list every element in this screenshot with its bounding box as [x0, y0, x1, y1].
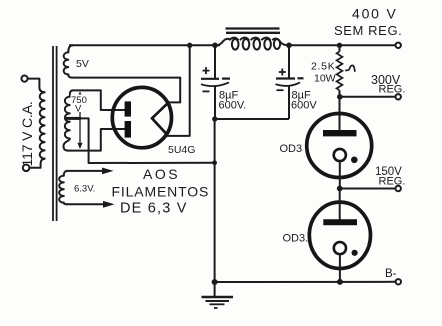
5U4G anode plate 1 [125, 101, 131, 116]
node 150V junction [337, 186, 343, 192]
V2 cathode circle [334, 149, 346, 161]
5U4G anode plate 2 [125, 121, 131, 138]
node filament/bus junction [187, 43, 192, 48]
transformer 5V winding [64, 45, 73, 77]
svg-text:400 V: 400 V [352, 6, 398, 22]
wire 150V line [340, 188, 396, 190]
transformer T1 primary winding 117V [28, 79, 45, 168]
terminal primary bottom [23, 165, 30, 172]
node cap1/bus junction [212, 43, 218, 49]
V3 cathode circle [334, 242, 346, 254]
filter choke L1 winding [215, 38, 289, 50]
dimension arrow 750V span [77, 91, 82, 149]
label R1 2.5K 10W [311, 61, 336, 85]
center tap of 750V winding [66, 117, 82, 120]
label C2 8uF 600V [291, 90, 317, 112]
top bus wire B+ [69, 44, 220, 46]
capacitor C1 8uF 600V [201, 45, 230, 119]
top bus wire to 400V [289, 44, 396, 46]
terminal 400V [396, 43, 401, 48]
label 150V REG. [375, 166, 405, 188]
terminal primary top [21, 76, 27, 82]
node ground junction [212, 279, 218, 285]
svg-text:V: V [75, 104, 82, 115]
node resistor top junction [337, 43, 342, 48]
wire V2 cathode down [339, 161, 341, 189]
svg-text:5U4G: 5U4G [168, 144, 195, 156]
V3 anode bar [323, 219, 357, 225]
wire center tap to down bus [80, 118, 89, 163]
cap bottom bus [215, 118, 289, 120]
terminal 300V [396, 94, 401, 99]
label 300V REG. [371, 73, 405, 96]
ground symbol [202, 282, 234, 308]
V2 anode bar [323, 130, 357, 136]
adjustable squiggle mark [345, 65, 355, 71]
svg-text:SEM REG.: SEM REG. [334, 23, 402, 38]
svg-text:600V: 600V [291, 100, 317, 112]
wire HV top end to upper plate [73, 90, 125, 110]
transformer T1 core [53, 46, 57, 221]
5U4G filament [152, 102, 169, 135]
svg-text:OD3: OD3 [280, 143, 303, 155]
svg-text:B-: B- [385, 268, 397, 280]
terminal B- [396, 279, 401, 284]
transformer 750V HV winding [64, 90, 73, 150]
svg-text:FILAMENTOS: FILAMENTOS [112, 184, 210, 200]
svg-text:REG.: REG. [379, 84, 406, 96]
V3 starter dot [352, 250, 358, 256]
label C1 8uF 600V. [219, 90, 247, 112]
svg-text:2.5K: 2.5K [311, 61, 335, 73]
wire 300V line [340, 96, 396, 98]
wire resistor to V2 anode [339, 97, 341, 133]
wire 5V bottom to filament top [72, 78, 180, 103]
node center tap junction [212, 160, 217, 165]
svg-text:DE 6,3 V: DE 6,3 V [120, 201, 188, 217]
node V3 cathode/bus junction [337, 279, 343, 285]
wire V3 cathode down [339, 254, 341, 282]
V2 starter dot [351, 157, 358, 164]
wire 6.3V bottom arrow to filaments [66, 201, 115, 208]
wire 6.3V top arrow to filaments [66, 168, 114, 175]
node cap bottom junction [212, 116, 217, 121]
node cap2/bus junction [286, 43, 292, 49]
capacitor C2 8uF 600V [276, 45, 304, 119]
regulator tube V2 OD3 envelope [307, 114, 372, 178]
svg-text:117 V C.A.: 117 V C.A. [19, 101, 35, 166]
rectifier tube 5U4G envelope [112, 87, 171, 147]
wire center tap horizontal [89, 162, 215, 164]
regulator tube V3 OD3 envelope [309, 202, 370, 268]
transformer 6.3V winding [59, 171, 67, 204]
label 400 V SEM REG. [334, 6, 402, 39]
filter choke L1 core [226, 29, 281, 33]
label AOS FILAMENTOS DE 6,3 V [112, 166, 210, 217]
svg-text:10W: 10W [314, 73, 336, 85]
wire filament bottom to top bus [167, 45, 190, 136]
B- bus wire [215, 281, 396, 283]
svg-text:6.3V.: 6.3V. [74, 184, 95, 195]
svg-text:AOS: AOS [143, 166, 180, 182]
terminal 150V [396, 186, 401, 191]
node 300V junction [337, 94, 343, 100]
svg-text:OD3.: OD3. [283, 233, 309, 245]
svg-text:5V: 5V [76, 58, 89, 70]
wire HV bottom end to lower plate [68, 129, 124, 151]
svg-text:REG.: REG. [379, 176, 406, 188]
svg-text:600V.: 600V. [219, 100, 247, 112]
label 750 V [71, 95, 93, 115]
wire to V3 anode [339, 189, 341, 223]
ground vertical wire [214, 119, 216, 282]
resistor R1 2.5K 10W [337, 45, 343, 96]
